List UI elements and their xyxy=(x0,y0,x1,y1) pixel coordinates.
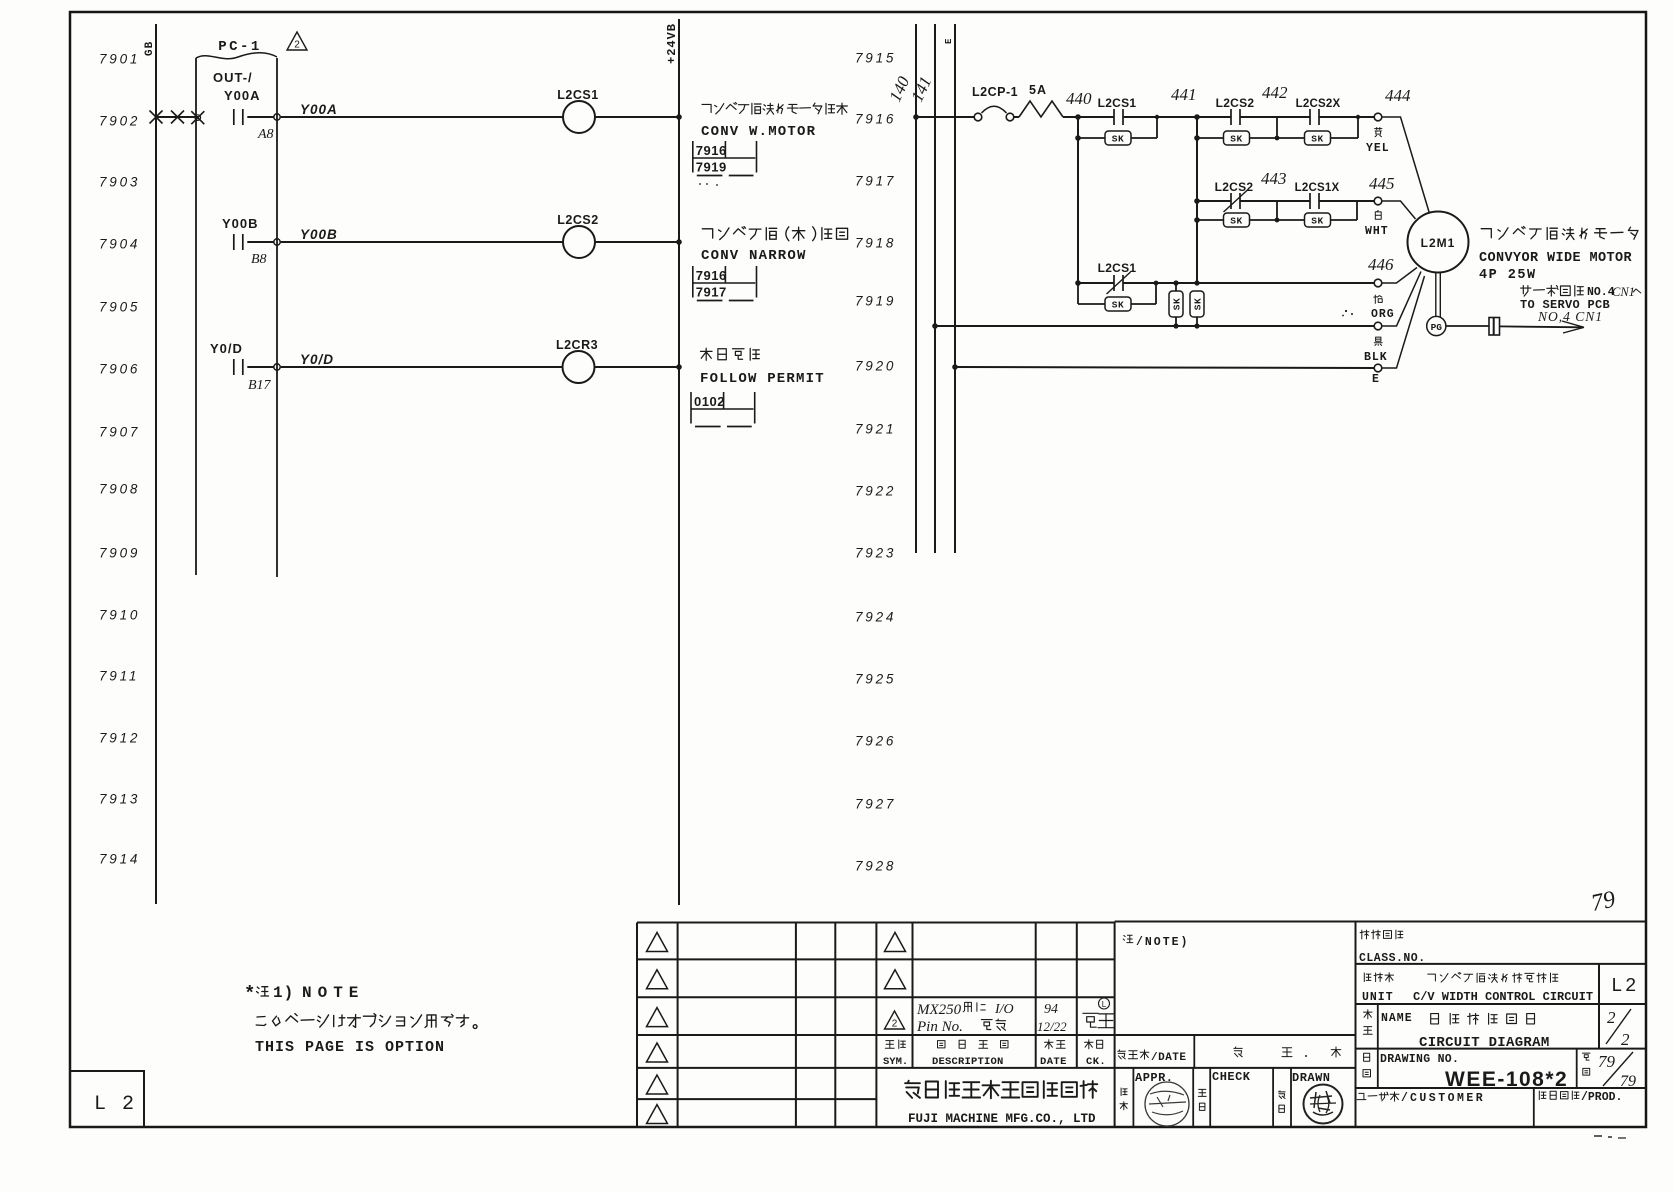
wire Y00B xyxy=(281,241,563,243)
svg-text:L2CP-1: L2CP-1 xyxy=(972,85,1018,99)
svg-text:SK: SK xyxy=(1172,298,1183,310)
contact L2CS1X (NO) xyxy=(1309,193,1311,209)
svg-text:L2CR3: L2CR3 xyxy=(556,338,598,352)
svg-text:7917: 7917 xyxy=(855,174,896,189)
svg-text:DATE: DATE xyxy=(1040,1056,1067,1068)
svg-text:WEE-108*2: WEE-108*2 xyxy=(1445,1068,1568,1091)
contact L2CS1 (NC) xyxy=(1075,280,1081,286)
svg-text:442: 442 xyxy=(1262,83,1288,102)
svg-text:NO,4 CN1: NO,4 CN1 xyxy=(1537,309,1603,324)
svg-text:7915: 7915 xyxy=(855,51,896,66)
contact L2CS1 (NO) xyxy=(1078,116,1114,118)
contact L2CS2X (NO) xyxy=(1309,109,1311,125)
stamp APPR xyxy=(1145,1082,1189,1126)
svg-text:443: 443 xyxy=(1261,169,1287,188)
wire Y00A xyxy=(281,116,563,118)
terminal ORG xyxy=(1374,322,1382,330)
svg-text:CONVYOR WIDE MOTOR: CONVYOR WIDE MOTOR xyxy=(1479,251,1633,266)
wire PG to servo xyxy=(1446,325,1489,327)
svg-text:7922: 7922 xyxy=(855,484,896,499)
svg-text:7903: 7903 xyxy=(99,175,140,190)
SK bypass row under L2CS2/L2CS2X xyxy=(1194,135,1200,141)
svg-text:Y00A: Y00A xyxy=(300,102,338,117)
customer row xyxy=(1357,1092,1399,1101)
svg-text:L2CS2X: L2CS2X xyxy=(1296,98,1341,110)
class row xyxy=(1356,963,1647,965)
contact Y00B pin B8 xyxy=(233,234,235,250)
motor shaft xyxy=(1435,273,1437,317)
svg-text:4P 25W: 4P 25W xyxy=(1479,268,1537,283)
svg-text:L2M1: L2M1 xyxy=(1421,236,1456,250)
svg-text:CK.: CK. xyxy=(1086,1056,1106,1068)
svg-text:7917: 7917 xyxy=(696,285,727,300)
encoder PG xyxy=(1427,316,1446,335)
svg-text:NOTE: NOTE xyxy=(302,984,364,1002)
svg-text:7916: 7916 xyxy=(855,112,896,127)
revision triangles (right column) xyxy=(885,932,906,951)
svg-text:7916: 7916 xyxy=(696,143,727,158)
stamp DRAWN xyxy=(1304,1085,1343,1124)
drawing no row xyxy=(1356,1087,1647,1089)
label block CONV W.MOTOR xyxy=(702,103,847,115)
svg-text:SK: SK xyxy=(1112,300,1124,311)
date row xyxy=(1115,1034,1356,1036)
svg-text:FOLLOW PERMIT: FOLLOW PERMIT xyxy=(700,371,825,387)
wire ORG xyxy=(932,323,938,329)
svg-text:Pin No.: Pin No. xyxy=(916,1019,963,1035)
svg-text:SYM.: SYM. xyxy=(883,1056,908,1068)
revision table xyxy=(637,922,876,924)
svg-text:GB: GB xyxy=(144,41,156,56)
svg-text:Y0/D: Y0/D xyxy=(210,341,243,356)
svg-text:7923: 7923 xyxy=(855,546,896,561)
svg-text:Y00B: Y00B xyxy=(300,227,338,242)
svg-text:/PROD.: /PROD. xyxy=(1581,1091,1622,1104)
svg-text:NAME: NAME xyxy=(1381,1012,1413,1025)
svg-text:7927: 7927 xyxy=(855,797,896,812)
PC-1 box xyxy=(195,58,197,575)
svg-text:DESCRIPTION: DESCRIPTION xyxy=(932,1056,1004,1068)
node B8 xyxy=(274,239,280,245)
svg-text:MX250: MX250 xyxy=(916,1002,962,1018)
motor description xyxy=(1481,227,1638,240)
node B17 xyxy=(274,364,280,370)
terminal 444 YEL xyxy=(1374,113,1382,121)
svg-text:Y00A: Y00A xyxy=(224,88,261,103)
svg-text:OUT-/: OUT-/ xyxy=(213,70,253,85)
svg-text:7902: 7902 xyxy=(99,114,140,129)
svg-text:444: 444 xyxy=(1385,86,1411,105)
svg-text:94: 94 xyxy=(1044,1002,1058,1017)
svg-text:CHECK: CHECK xyxy=(1212,1070,1251,1084)
bus 141 xyxy=(934,24,936,553)
svg-text:7904: 7904 xyxy=(99,237,140,252)
svg-text:7916: 7916 xyxy=(696,268,727,283)
smudge under title block xyxy=(1594,1135,1602,1137)
svg-text:7921: 7921 xyxy=(855,422,896,437)
X marks on rung 7902 xyxy=(150,111,163,124)
svg-text:2: 2 xyxy=(1607,1008,1616,1027)
motor L2M1 xyxy=(1408,212,1469,273)
svg-text:L: L xyxy=(1102,1000,1107,1009)
svg-text:E: E xyxy=(944,38,954,44)
SK bypass under L2CS1 xyxy=(1077,117,1079,283)
svg-text:441: 441 xyxy=(1171,85,1197,104)
label block CONV NARROW xyxy=(702,227,847,241)
bus GB xyxy=(155,24,157,904)
svg-text:7912: 7912 xyxy=(99,731,140,746)
svg-text:SK: SK xyxy=(1193,298,1204,310)
svg-text:79: 79 xyxy=(1598,1052,1616,1071)
svg-text:CONV NARROW: CONV NARROW xyxy=(701,248,807,264)
svg-text:L: L xyxy=(1611,975,1622,997)
svg-text:L2CS2: L2CS2 xyxy=(1216,96,1255,110)
servo pcb note xyxy=(1521,285,1584,296)
svg-text:/NOTE): /NOTE) xyxy=(1136,936,1189,949)
svg-text:7919: 7919 xyxy=(696,160,727,175)
svg-text:SK: SK xyxy=(1311,216,1323,227)
svg-text:WHT: WHT xyxy=(1365,225,1389,238)
svg-text:7908: 7908 xyxy=(99,482,140,497)
svg-text:7928: 7928 xyxy=(855,859,896,874)
name row xyxy=(1356,1048,1647,1050)
svg-text:446: 446 xyxy=(1368,255,1394,274)
svg-text:7907: 7907 xyxy=(99,425,140,440)
svg-text:ORG: ORG xyxy=(1371,308,1395,321)
svg-text:7920: 7920 xyxy=(855,359,896,374)
svg-text:DRAWN: DRAWN xyxy=(1292,1071,1331,1085)
svg-text:PG: PG xyxy=(1431,322,1443,333)
vertical SK resistor 2 xyxy=(1194,280,1199,285)
page tag L2 box xyxy=(70,1071,144,1127)
svg-text:*: * xyxy=(244,983,255,1005)
svg-text:Y0/D: Y0/D xyxy=(300,352,334,367)
svg-text:7901: 7901 xyxy=(99,52,140,67)
label block FOLLOW PERMIT xyxy=(701,348,760,360)
svg-text:7926: 7926 xyxy=(855,734,896,749)
svg-text:L2CS2: L2CS2 xyxy=(557,213,598,227)
svg-text:7919: 7919 xyxy=(855,294,896,309)
svg-text:7905: 7905 xyxy=(99,300,140,315)
svg-text:CN1: CN1 xyxy=(1612,285,1635,299)
note cell xyxy=(1123,935,1133,942)
svg-text:440: 440 xyxy=(1066,89,1092,108)
contact L2CS2 (NC) xyxy=(1194,198,1200,204)
ink specks near ORG wire xyxy=(1345,310,1347,312)
svg-text:APPR.: APPR. xyxy=(1135,1071,1174,1085)
svg-text:0102: 0102 xyxy=(694,394,725,409)
svg-text:+24VB: +24VB xyxy=(665,23,679,64)
node 440 xyxy=(1075,114,1081,120)
svg-text:Y00B: Y00B xyxy=(222,216,259,231)
svg-text:2: 2 xyxy=(294,40,300,51)
svg-text:7913: 7913 xyxy=(99,792,140,807)
bus +24VB xyxy=(678,19,680,905)
svg-text:2: 2 xyxy=(1625,975,1636,997)
svg-text:B17: B17 xyxy=(248,378,272,393)
svg-text:CLASS.NO.: CLASS.NO. xyxy=(1359,952,1426,965)
revision triangle 2 xyxy=(287,32,307,50)
note japanese line xyxy=(256,1014,477,1029)
wire rung 7902 xyxy=(156,116,198,118)
svg-text:5A: 5A xyxy=(1029,83,1047,97)
svg-text:C/V WIDTH CONTROL CIRCUIT: C/V WIDTH CONTROL CIRCUIT xyxy=(1413,990,1593,1004)
svg-text:7910: 7910 xyxy=(99,608,140,623)
bus E xyxy=(954,24,956,553)
svg-text:CUSTOMER: CUSTOMER xyxy=(1410,1092,1485,1105)
svg-text:7911: 7911 xyxy=(99,669,139,684)
approval row xyxy=(1132,1068,1134,1127)
wire BLK xyxy=(952,364,958,370)
contact Y01D pin B17 xyxy=(233,359,235,375)
svg-text:7925: 7925 xyxy=(855,672,896,687)
coil L2CR3 xyxy=(563,351,595,383)
svg-text:L2CS1: L2CS1 xyxy=(557,88,598,102)
contact L2CS2 (NO) xyxy=(1197,116,1231,118)
revision triangles (left column) xyxy=(647,932,668,951)
node A8 xyxy=(274,114,280,120)
node 441 xyxy=(1194,114,1200,120)
svg-text:UNIT: UNIT xyxy=(1362,991,1394,1004)
terminal 446 xyxy=(1374,279,1382,287)
title block xyxy=(1115,921,1646,923)
svg-text:L2CS1: L2CS1 xyxy=(1098,261,1137,275)
contact Y00A pin A8 xyxy=(233,109,235,125)
svg-text:PC-1: PC-1 xyxy=(218,39,262,55)
terminal 445 WHT xyxy=(1374,197,1382,205)
svg-text:SK: SK xyxy=(1230,216,1242,227)
breaker L2CP-1 5A xyxy=(974,113,982,121)
terminal BLK/E xyxy=(1374,364,1382,372)
wire 7916 xyxy=(913,114,919,120)
svg-text:7924: 7924 xyxy=(855,610,896,625)
svg-text:445: 445 xyxy=(1369,174,1395,193)
svg-text:2: 2 xyxy=(892,1019,898,1030)
svg-text:2: 2 xyxy=(1621,1030,1630,1049)
svg-text:79: 79 xyxy=(1620,1073,1636,1090)
svg-text:L 2: L 2 xyxy=(94,1093,136,1116)
SK bypass row3 xyxy=(1077,283,1079,304)
vertical SK resistor 1 xyxy=(1173,280,1178,285)
fuse zigzag xyxy=(1014,116,1019,118)
SK bypass row2 xyxy=(1194,217,1200,223)
svg-text:SK: SK xyxy=(1230,134,1242,145)
svg-text:THIS PAGE IS OPTION: THIS PAGE IS OPTION xyxy=(255,1039,445,1056)
coil L2CS2 xyxy=(563,226,595,258)
svg-text:B8: B8 xyxy=(251,252,267,267)
svg-text:SK: SK xyxy=(1311,134,1323,145)
svg-text:A8: A8 xyxy=(257,127,274,142)
svg-text:/: / xyxy=(1401,1092,1408,1105)
svg-text:CONV W.MOTOR: CONV W.MOTOR xyxy=(701,124,816,140)
arrow to servo pcb xyxy=(1500,325,1584,328)
svg-text:7909: 7909 xyxy=(99,546,140,561)
unit row xyxy=(1356,1003,1647,1005)
svg-text:SK: SK xyxy=(1112,134,1124,145)
svg-text:E: E xyxy=(1372,373,1379,386)
svg-text:DRAWING NO.: DRAWING NO. xyxy=(1380,1053,1459,1066)
revision entry triangle 2 xyxy=(885,1011,905,1029)
svg-text:1): 1) xyxy=(273,984,294,1002)
svg-text:L2CS1: L2CS1 xyxy=(1098,96,1137,110)
svg-text:BLK: BLK xyxy=(1364,351,1388,364)
svg-text:7914: 7914 xyxy=(99,852,140,867)
revision header row xyxy=(885,1040,905,1049)
connector symbol xyxy=(1489,318,1500,336)
svg-text:L2CS1X: L2CS1X xyxy=(1295,182,1340,194)
svg-text:7918: 7918 xyxy=(855,236,896,251)
svg-text:/DATE: /DATE xyxy=(1151,1052,1187,1064)
svg-text:YEL: YEL xyxy=(1366,142,1390,155)
svg-text:7906: 7906 xyxy=(99,362,140,377)
svg-text:FUJI MACHINE MFG.CO., LTD: FUJI MACHINE MFG.CO., LTD xyxy=(908,1112,1096,1126)
coil L2CS1 xyxy=(563,101,595,133)
bus 140 xyxy=(915,24,917,553)
svg-text:I/O: I/O xyxy=(994,1002,1014,1017)
revision CK stamp 近田 xyxy=(1083,1013,1114,1027)
company name xyxy=(905,1081,1097,1099)
wire Y01D xyxy=(281,366,563,368)
svg-text:CIRCUIT DIAGRAM: CIRCUIT DIAGRAM xyxy=(1419,1035,1550,1051)
svg-text:12/22: 12/22 xyxy=(1037,1019,1067,1034)
svg-text:L2CS2: L2CS2 xyxy=(1215,180,1254,194)
